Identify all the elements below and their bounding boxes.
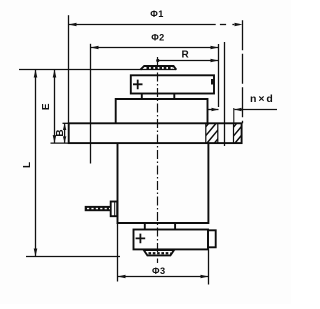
- node hole edge extension right: [233, 108, 235, 123]
- connector collar inner line: [114, 202, 116, 217]
- flange plate: [69, 123, 242, 143]
- node right bolt hole axis: [224, 42, 226, 146]
- wire dimension line n x d right (leader): [235, 109, 278, 111]
- wire dimension line phi2: [91, 47, 219, 49]
- neck between body and lower box: [145, 223, 175, 230]
- wire dimension line n x d left: [208, 109, 219, 111]
- bonnet middle body: [116, 99, 208, 123]
- plus symbol upper: [133, 80, 143, 90]
- hatch band boundaries: [206, 123, 234, 143]
- neck between coil box and bonnet: [142, 94, 175, 100]
- hatch left band of flange section: [194, 117, 264, 159]
- svg-text:n×d: n×d: [250, 93, 275, 105]
- cap knurl dashes top: [147, 67, 173, 69]
- lower box end plug: [208, 230, 216, 247]
- lower body cylinder: [118, 143, 209, 223]
- cap top trapezoid: [140, 66, 176, 70]
- centerline main vertical: [157, 57, 159, 263]
- coil box U1: [131, 75, 214, 93]
- wire dimension line phi3: [118, 276, 209, 278]
- node phi1 extension left: [68, 15, 70, 123]
- svg-text:R: R: [182, 50, 190, 61]
- wire top extension line (E and L top): [19, 69, 176, 71]
- wire flange top extension stub: [63, 122, 69, 124]
- node phi3 extension left: [117, 223, 119, 282]
- wire dimension line phi1: [69, 24, 216, 26]
- svg-text:B: B: [55, 129, 66, 136]
- wire dimension line E: [54, 70, 56, 144]
- cap knurl dashes bottom: [149, 252, 171, 254]
- lower terminal box U2: [134, 230, 209, 250]
- plus symbol lower: [136, 234, 146, 244]
- connector collar: [111, 202, 118, 217]
- svg-text:L: L: [22, 162, 33, 168]
- wire dimension line B: [64, 123, 66, 143]
- bottom cap trapezoid: [144, 250, 174, 255]
- node phi3 extension right: [208, 249, 210, 284]
- svg-text:Φ1: Φ1: [150, 9, 163, 19]
- node phi2 extension right: [218, 44, 220, 107]
- node phi2 extension left (left bolt axis): [90, 44, 92, 164]
- svg-text:E: E: [41, 103, 52, 110]
- wire dimension line L: [35, 70, 37, 257]
- wire dimension line R: [158, 60, 219, 62]
- threaded stem: [85, 206, 111, 211]
- svg-text:Φ2: Φ2: [151, 32, 164, 42]
- wire bottom extension line for L: [26, 256, 120, 258]
- svg-text:Φ3: Φ3: [152, 266, 165, 276]
- coil box plug tick: [211, 79, 214, 85]
- wire flange bottom extension stub: [51, 142, 69, 144]
- node phi1 extension right dashed: [242, 20, 244, 123]
